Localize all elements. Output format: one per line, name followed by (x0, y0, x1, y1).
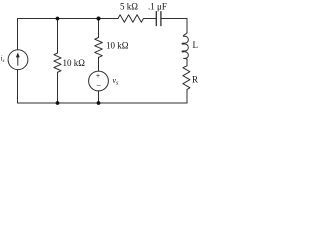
svg-text:+: + (96, 71, 101, 80)
wire right branch down to inductor (186, 19, 188, 34)
wire inductor to resistor R (186, 59, 188, 66)
wire branch2 bottom (98, 91, 100, 103)
resistor R (vertical zigzag) (183, 66, 190, 90)
wire branch2 top (98, 19, 100, 38)
junction dot top branch1 (56, 17, 60, 21)
capacitor C .1 uF plates (155, 12, 157, 26)
wire left top (17, 19, 19, 50)
wire resistor R to bottom-right corner (186, 90, 188, 103)
junction dot bottom branch2 (97, 101, 101, 105)
svg-text:R: R (192, 75, 198, 85)
wire left bottom (17, 70, 19, 103)
wire resistor to capacitor (144, 18, 157, 20)
current source arrowhead (16, 52, 20, 57)
svg-text:10 kΩ: 10 kΩ (106, 41, 129, 51)
resistor 10 kOhm branch2 zigzag (95, 38, 103, 58)
inductor L coil (182, 32, 188, 59)
resistor 10 kOhm branch1 zigzag (54, 53, 61, 72)
svg-text:10 kΩ: 10 kΩ (63, 58, 86, 68)
wire bottom (18, 102, 188, 104)
wire branch1 bottom (57, 72, 59, 103)
junction dot bottom branch1 (56, 101, 60, 105)
wire branch1 top (57, 19, 59, 54)
svg-text:5 kΩ: 5 kΩ (120, 2, 138, 12)
voltage source vs circle (89, 71, 109, 91)
resistor 5 kOhm (horizontal zigzag) (118, 15, 143, 22)
current source arrow (17, 56, 19, 65)
svg-text:.1 μF: .1 μF (148, 2, 167, 12)
wire branch2 mid (98, 57, 100, 71)
svg-text:L: L (193, 40, 199, 50)
current source is circle (8, 50, 28, 70)
junction dot top branch2 (97, 17, 101, 21)
wire top-left segment (18, 18, 119, 20)
svg-text:−: − (96, 81, 101, 91)
wire capacitor to top-right corner (161, 18, 187, 20)
